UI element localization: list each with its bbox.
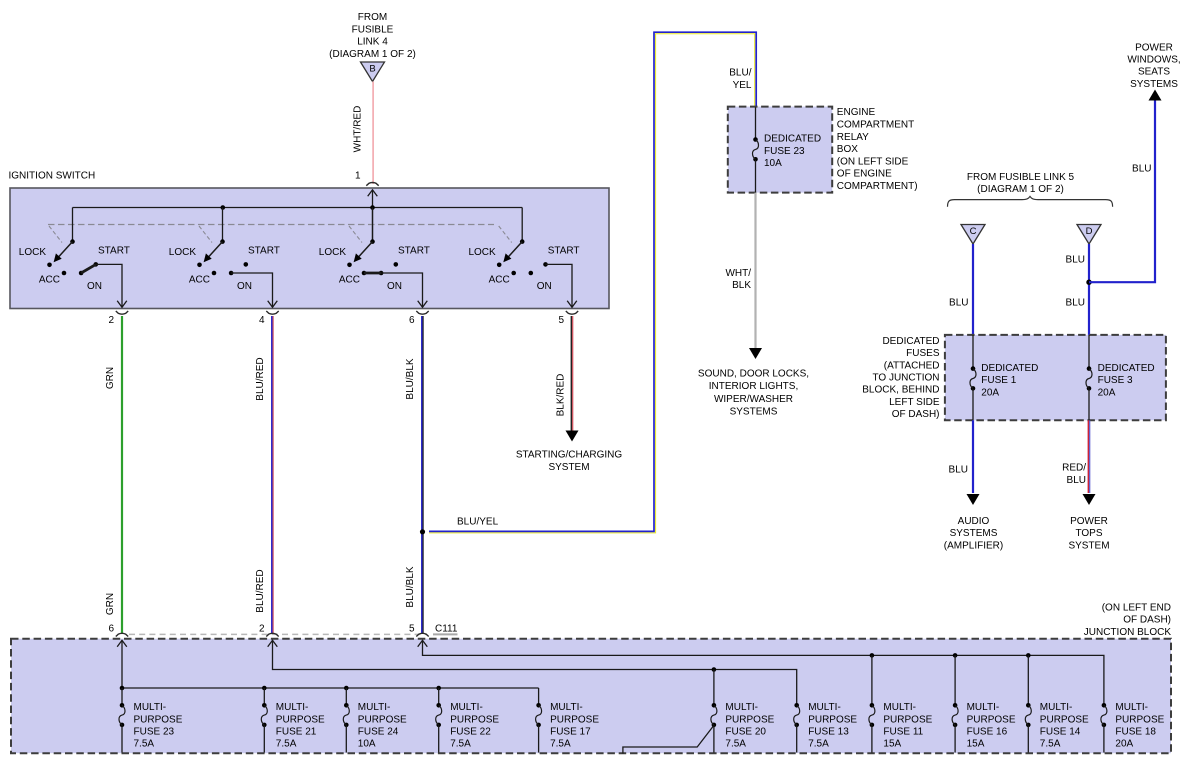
multi-purpose fuse 17 7.5A — [536, 703, 541, 708]
junction block feeder from pin 5 — [423, 640, 1104, 704]
svg-text:1: 1 — [355, 171, 361, 182]
svg-text:WHT/: WHT/ — [725, 268, 751, 279]
svg-text:FUSE 21: FUSE 21 — [276, 727, 317, 738]
svg-text:START: START — [98, 246, 130, 257]
svg-text:FUSES: FUSES — [906, 348, 940, 359]
wire RED/BLU to power tops — [1087, 420, 1089, 493]
svg-text:START: START — [248, 246, 280, 257]
svg-text:START: START — [548, 246, 580, 257]
svg-text:MULTI-: MULTI- — [450, 702, 483, 713]
svg-text:SYSTEMS: SYSTEMS — [950, 528, 998, 539]
junction block feeder from pin 2 — [273, 640, 797, 704]
svg-text:2: 2 — [108, 315, 114, 326]
svg-text:DEDICATED: DEDICATED — [882, 336, 939, 347]
svg-text:FUSE 11: FUSE 11 — [883, 727, 923, 738]
svg-text:SYSTEM: SYSTEM — [1068, 541, 1109, 552]
svg-text:GRN: GRN — [105, 367, 116, 389]
wire from fuse 20 exiting bottom — [623, 727, 713, 754]
svg-text:20A: 20A — [1115, 739, 1133, 750]
svg-text:ACC: ACC — [489, 274, 510, 285]
svg-text:7.5A: 7.5A — [1040, 739, 1061, 750]
wire BLU branch to power windows — [1089, 100, 1155, 282]
svg-text:LOCK: LOCK — [169, 247, 197, 258]
svg-text:FUSE 22: FUSE 22 — [450, 727, 491, 738]
svg-text:RELAY: RELAY — [837, 132, 869, 143]
svg-text:SYSTEMS: SYSTEMS — [1130, 79, 1178, 90]
multi-purpose fuse 14 7.5A — [1026, 703, 1031, 708]
multi-purpose fuse 22 7.5A — [436, 703, 441, 708]
svg-text:ON: ON — [87, 281, 102, 292]
svg-text:(AMPLIFIER): (AMPLIFIER) — [944, 541, 1003, 552]
junction block fuse bus — [122, 687, 539, 689]
svg-text:7.5A: 7.5A — [276, 739, 297, 750]
connector B (triangle) — [361, 62, 385, 82]
svg-text:MULTI-: MULTI- — [358, 702, 391, 713]
svg-text:MULTI-: MULTI- — [725, 702, 758, 713]
svg-text:BLU: BLU — [1066, 298, 1085, 309]
svg-text:PURPOSE: PURPOSE — [358, 714, 407, 725]
drops to fuses — [121, 688, 123, 705]
bus drop to fuse 17 — [538, 688, 540, 705]
curly brace — [948, 196, 1113, 206]
wire BLU from connector C to dedicated fuse 1 — [972, 244, 974, 335]
svg-text:(ATTACHED: (ATTACHED — [884, 360, 940, 371]
svg-text:7.5A: 7.5A — [134, 739, 155, 750]
svg-text:OF DASH): OF DASH) — [1123, 615, 1171, 626]
svg-text:ON: ON — [537, 281, 552, 292]
svg-text:FROM: FROM — [358, 12, 387, 23]
wire BLU from connector D — [1088, 244, 1090, 335]
svg-text:START: START — [398, 246, 430, 257]
wire BLU/YEL from junction node up and over to relay box — [429, 34, 755, 533]
svg-text:PURPOSE: PURPOSE — [134, 714, 183, 725]
svg-text:C: C — [970, 226, 977, 237]
svg-text:FUSE 14: FUSE 14 — [1040, 727, 1081, 738]
multi-purpose fuse 23 7.5A — [120, 703, 125, 708]
svg-text:DEDICATED: DEDICATED — [981, 363, 1038, 374]
svg-text:LEFT SIDE: LEFT SIDE — [889, 397, 940, 408]
svg-text:PURPOSE: PURPOSE — [967, 714, 1016, 725]
mechanical linkage dashed line — [48, 224, 494, 226]
svg-text:LOCK: LOCK — [19, 247, 47, 258]
svg-text:LINK 4: LINK 4 — [357, 37, 388, 48]
junction node on D wire — [1086, 280, 1091, 285]
svg-text:COMPARTMENT): COMPARTMENT) — [837, 181, 918, 192]
svg-text:MULTI-: MULTI- — [1115, 702, 1148, 713]
svg-text:LOCK: LOCK — [319, 247, 347, 258]
multi-purpose fuse 11 15A — [870, 703, 875, 708]
svg-text:B: B — [369, 64, 375, 75]
svg-text:20A: 20A — [981, 387, 999, 398]
svg-text:ACC: ACC — [39, 274, 60, 285]
svg-text:7.5A: 7.5A — [725, 739, 746, 750]
top bus wire — [73, 207, 523, 209]
svg-text:MULTI-: MULTI- — [550, 702, 583, 713]
junction block feeder from pin 6 — [121, 640, 123, 688]
svg-text:PURPOSE: PURPOSE — [808, 714, 857, 725]
multi-purpose fuse 16 15A — [953, 703, 958, 708]
multi-purpose fuse 21 7.5A — [262, 703, 267, 708]
svg-text:(DIAGRAM 1 OF 2): (DIAGRAM 1 OF 2) — [977, 184, 1064, 195]
svg-text:7.5A: 7.5A — [550, 739, 571, 750]
junction block box (dashed) — [11, 639, 1171, 754]
svg-text:TO JUNCTION: TO JUNCTION — [872, 373, 939, 384]
svg-text:6: 6 — [409, 315, 415, 326]
multi-purpose fuse 18 20A — [1102, 703, 1107, 708]
svg-text:FUSE 18: FUSE 18 — [1115, 727, 1156, 738]
svg-text:STARTING/CHARGING: STARTING/CHARGING — [516, 450, 623, 461]
svg-text:ACC: ACC — [189, 274, 210, 285]
svg-text:MULTI-: MULTI- — [1040, 702, 1073, 713]
svg-text:OF ENGINE: OF ENGINE — [837, 169, 892, 180]
svg-text:DEDICATED: DEDICATED — [764, 134, 821, 145]
svg-text:10A: 10A — [358, 739, 376, 750]
svg-text:PURPOSE: PURPOSE — [725, 714, 774, 725]
svg-text:MULTI-: MULTI- — [883, 702, 916, 713]
svg-text:BLU: BLU — [949, 465, 968, 476]
svg-text:BLU: BLU — [1067, 475, 1086, 486]
svg-text:POWER: POWER — [1070, 516, 1108, 527]
wire WHT/RED from connector B to ignition switch pin 1 — [371, 82, 373, 185]
svg-text:BLU/BLK: BLU/BLK — [405, 566, 416, 607]
svg-text:INTERIOR LIGHTS,: INTERIOR LIGHTS, — [709, 381, 798, 392]
svg-text:7.5A: 7.5A — [808, 739, 829, 750]
ignition switch box — [10, 188, 609, 309]
svg-text:(DIAGRAM 1 OF 2): (DIAGRAM 1 OF 2) — [329, 49, 416, 60]
svg-text:15A: 15A — [967, 739, 985, 750]
ignition switch gang 1 — [72, 208, 74, 242]
dedicated fuse 3 20A — [1088, 335, 1090, 368]
multi-purpose fuse 20 7.5A — [712, 703, 717, 708]
engine compartment relay box (dashed) — [728, 107, 832, 193]
wire WHT/BLK to sound systems — [754, 193, 756, 349]
connector C111 dashed line — [129, 633, 427, 635]
svg-text:OF DASH): OF DASH) — [892, 409, 940, 420]
svg-text:ON: ON — [237, 281, 252, 292]
svg-text:AUDIO: AUDIO — [958, 516, 990, 527]
svg-text:SYSTEM: SYSTEM — [548, 462, 589, 473]
svg-text:BLU/: BLU/ — [729, 68, 751, 79]
wire BLU/RED (pin4 to junction pin 2) — [271, 316, 273, 634]
svg-text:(ON LEFT SIDE: (ON LEFT SIDE — [837, 156, 909, 167]
ignition switch gang 4 — [521, 208, 523, 242]
wire BLU to audio systems — [972, 420, 974, 493]
svg-text:ENGINE: ENGINE — [837, 107, 876, 118]
svg-text:DEDICATED: DEDICATED — [1098, 363, 1155, 374]
svg-text:TOPS: TOPS — [1075, 528, 1102, 539]
svg-text:PURPOSE: PURPOSE — [450, 714, 499, 725]
svg-text:PURPOSE: PURPOSE — [276, 714, 325, 725]
multi-purpose fuse 24 10A — [344, 703, 349, 708]
svg-text:BLK: BLK — [732, 280, 751, 291]
svg-text:FUSE 23: FUSE 23 — [764, 146, 805, 157]
multi-purpose fuse 13 7.5A — [794, 703, 799, 708]
svg-text:WINDOWS,: WINDOWS, — [1127, 55, 1180, 66]
svg-text:WIPER/WASHER: WIPER/WASHER — [714, 394, 793, 405]
svg-text:MULTI-: MULTI- — [808, 702, 841, 713]
ignition switch gang 3 — [372, 208, 374, 242]
svg-text:BLOCK, BEHIND: BLOCK, BEHIND — [862, 385, 939, 396]
svg-text:ON: ON — [387, 281, 402, 292]
svg-text:SOUND, DOOR LOCKS,: SOUND, DOOR LOCKS, — [698, 369, 809, 380]
svg-text:C111: C111 — [435, 624, 458, 635]
svg-text:BLK/RED: BLK/RED — [556, 374, 567, 417]
svg-text:ACC: ACC — [339, 274, 360, 285]
svg-text:BOX: BOX — [837, 144, 858, 155]
dedicated fuse 23 10A — [755, 107, 757, 139]
svg-text:FUSE 23: FUSE 23 — [134, 727, 175, 738]
svg-text:FUSIBLE: FUSIBLE — [352, 24, 394, 35]
svg-text:10A: 10A — [764, 158, 782, 169]
wire pin1 entry with arrow — [368, 190, 378, 197]
svg-text:20A: 20A — [1098, 387, 1116, 398]
svg-text:4: 4 — [259, 315, 265, 326]
dedicated fuses box (dashed) — [945, 335, 1166, 420]
svg-text:6: 6 — [108, 624, 114, 635]
svg-text:JUNCTION BLOCK: JUNCTION BLOCK — [1084, 627, 1172, 638]
svg-text:COMPARTMENT: COMPARTMENT — [837, 120, 914, 131]
svg-text:PURPOSE: PURPOSE — [1115, 714, 1164, 725]
svg-text:D: D — [1086, 226, 1093, 237]
svg-text:BLU: BLU — [1066, 255, 1085, 266]
svg-text:BLU/RED: BLU/RED — [255, 357, 266, 400]
svg-text:SYSTEMS: SYSTEMS — [730, 406, 778, 417]
svg-text:2: 2 — [259, 624, 265, 635]
svg-text:YEL: YEL — [733, 80, 752, 91]
dedicated fuse 1 20A — [972, 335, 974, 368]
svg-text:PURPOSE: PURPOSE — [883, 714, 932, 725]
svg-text:PURPOSE: PURPOSE — [550, 714, 599, 725]
svg-text:SEATS: SEATS — [1138, 67, 1170, 78]
svg-text:15A: 15A — [883, 739, 901, 750]
svg-text:FUSE 13: FUSE 13 — [808, 727, 849, 738]
svg-text:POWER: POWER — [1135, 43, 1173, 54]
svg-text:FROM FUSIBLE LINK 5: FROM FUSIBLE LINK 5 — [967, 172, 1075, 183]
wire BLK/RED (pin5) to starting/charging — [570, 316, 572, 432]
svg-text:MULTI-: MULTI- — [967, 702, 1000, 713]
svg-text:FUSE 3: FUSE 3 — [1098, 375, 1133, 386]
svg-text:GRN: GRN — [105, 593, 116, 615]
wire BLU/BLK (pin6 to junction pin 5) — [421, 316, 423, 634]
svg-text:BLU/RED: BLU/RED — [255, 569, 266, 612]
svg-text:BLU: BLU — [1132, 164, 1151, 175]
svg-text:PURPOSE: PURPOSE — [1040, 714, 1089, 725]
svg-text:5: 5 — [558, 315, 564, 326]
svg-text:BLU: BLU — [949, 298, 968, 309]
junction node on BLU/BLK wire — [420, 529, 425, 534]
svg-text:BLU/YEL: BLU/YEL — [457, 517, 499, 528]
svg-text:LOCK: LOCK — [468, 247, 496, 258]
wire GRN (pin2 to junction pin 6) — [121, 316, 123, 634]
svg-text:FUSE 17: FUSE 17 — [550, 727, 591, 738]
svg-text:MULTI-: MULTI- — [276, 702, 309, 713]
svg-text:5: 5 — [409, 624, 415, 635]
svg-text:IGNITION SWITCH: IGNITION SWITCH — [9, 171, 96, 182]
connector C (triangle) — [961, 225, 985, 245]
svg-text:FUSE 20: FUSE 20 — [725, 727, 766, 738]
svg-text:MULTI-: MULTI- — [134, 702, 167, 713]
ignition switch gang 2 — [222, 208, 224, 242]
svg-text:(ON LEFT END: (ON LEFT END — [1102, 602, 1171, 613]
svg-text:WHT/RED: WHT/RED — [353, 106, 364, 153]
svg-text:RED/: RED/ — [1062, 463, 1086, 474]
svg-text:FUSE 24: FUSE 24 — [358, 727, 399, 738]
svg-text:7.5A: 7.5A — [450, 739, 471, 750]
connector D (triangle) — [1077, 225, 1101, 245]
svg-text:FUSE 1: FUSE 1 — [981, 375, 1016, 386]
svg-text:BLU/BLK: BLU/BLK — [405, 358, 416, 399]
svg-text:FUSE 16: FUSE 16 — [967, 727, 1008, 738]
